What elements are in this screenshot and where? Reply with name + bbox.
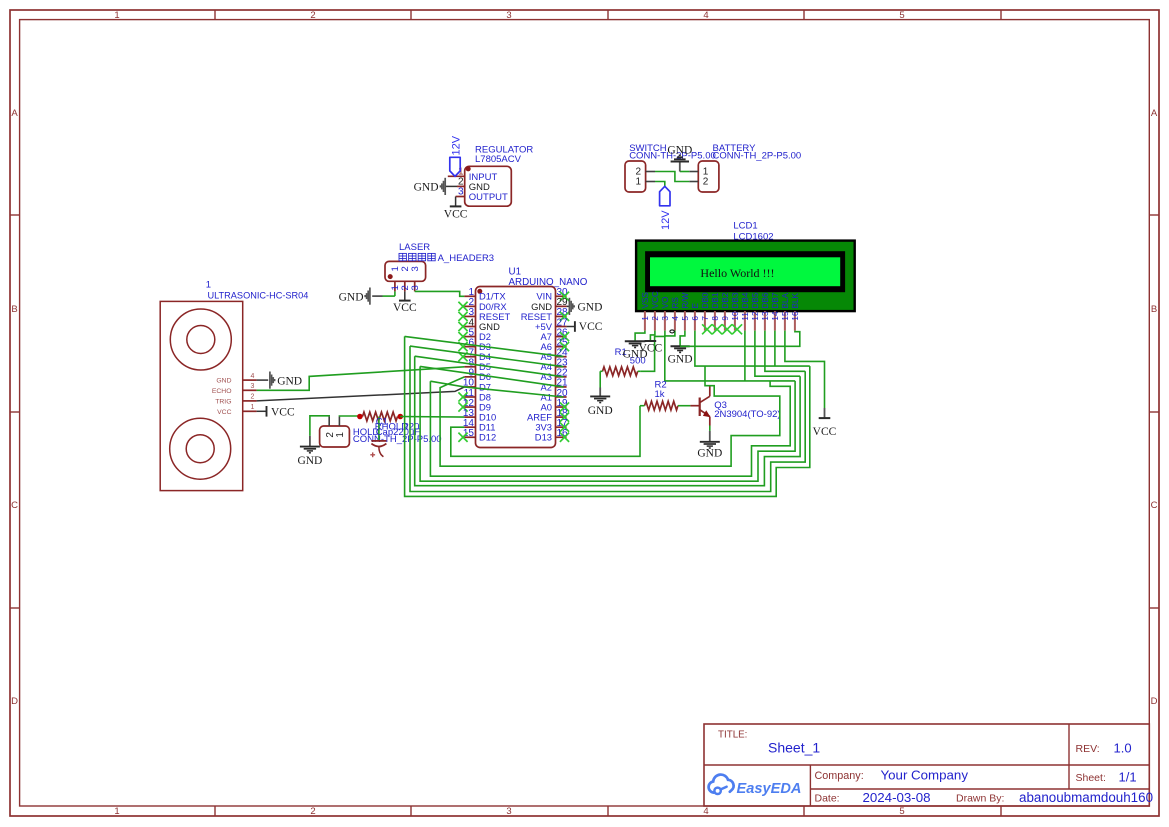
svg-text:Drawn By:: Drawn By:	[956, 793, 1004, 805]
U1 pin 16 D13	[535, 428, 568, 443]
wire U1 D3 to A5 diagonal	[405, 336, 564, 356]
svg-text:E: E	[691, 303, 700, 309]
small ellipse mark near LCD pin4	[670, 330, 674, 333]
svg-text:VCC: VCC	[444, 209, 468, 221]
wire LCD pin15 BLA to VCC	[785, 331, 825, 408]
ultrasonic pin 3 ECHO	[212, 383, 257, 395]
no-connect X on U1 pin 11	[458, 392, 467, 401]
svg-text:1k: 1k	[655, 389, 665, 400]
battery pin 1 stub	[689, 171, 698, 173]
svg-text:REV:: REV:	[1076, 743, 1100, 755]
svg-text:2: 2	[251, 394, 255, 401]
wire U1 D11 to R2	[451, 406, 640, 457]
capacitor C1 Cap220uF polarized	[370, 416, 420, 457]
wire U1 D4 to A4 diagonal	[410, 346, 564, 367]
no-connect X on LCD pin 7	[702, 324, 712, 334]
svg-text:1: 1	[335, 432, 346, 438]
svg-text:12V: 12V	[660, 210, 672, 230]
svg-text:GND: GND	[414, 181, 439, 193]
wire R1 left to GND	[599, 371, 601, 387]
no-connect X on U1 pin 17	[560, 423, 569, 432]
wire LCD pin6 E descending	[695, 331, 810, 367]
part anchor dot laser	[388, 274, 393, 279]
U1 pin 26 A7	[541, 327, 569, 342]
svg-text:3: 3	[410, 266, 421, 271]
ground GND at laser pin1	[339, 288, 370, 305]
connector BATTERY CONN-TH_2P-P5.00	[698, 143, 801, 192]
U1 pin 2 D0/RX	[464, 297, 507, 312]
connector SWITCH CONN-TH-2P-P5.00	[625, 143, 716, 192]
LCD pin 7 DB0	[701, 292, 710, 330]
hold pin 1 stub	[338, 416, 340, 426]
svg-text:5: 5	[899, 10, 904, 21]
LCD pin 8 DB1	[711, 292, 720, 330]
U1 pin 22 A3	[541, 368, 569, 383]
hold pin 2 stub	[328, 416, 330, 426]
wire LCD pin2 VCC to VCC flag	[650, 331, 655, 341]
U1 pin 14 D11	[463, 418, 496, 433]
wire LCD pin14 DB7 to E net	[774, 331, 776, 367]
svg-text:GND: GND	[297, 455, 322, 467]
ground GND at Q3 emitter	[697, 431, 722, 460]
svg-text:Your Company: Your Company	[881, 767, 969, 782]
LCD pin 13 DB6	[761, 292, 770, 330]
svg-text:ULTRASONIC-HC-SR04: ULTRASONIC-HC-SR04	[208, 290, 309, 300]
EasyEDA logo	[709, 775, 802, 798]
svg-text:3: 3	[506, 10, 511, 21]
U1 pin 21 A2	[541, 378, 569, 393]
svg-text:B: B	[1151, 304, 1157, 315]
svg-text:ECHO: ECHO	[212, 388, 232, 395]
svg-text:GND: GND	[697, 448, 722, 460]
wire switch pin1 to 12V flag	[655, 182, 665, 187]
svg-text:3: 3	[506, 806, 511, 817]
svg-text:A: A	[11, 108, 18, 119]
svg-text:16: 16	[557, 428, 569, 439]
svg-text:16: 16	[791, 311, 800, 321]
svg-text:DB7: DB7	[771, 292, 780, 308]
svg-text:LCD1602: LCD1602	[733, 231, 773, 242]
svg-text:D12: D12	[479, 432, 496, 443]
svg-text:4: 4	[671, 316, 680, 321]
no-connect X on U1 pin 7	[458, 352, 467, 361]
connector HOLD CONN-TH_2P-P5.00	[320, 426, 442, 447]
no-connect X on U1 pin 6	[458, 342, 467, 351]
svg-text:D: D	[1151, 696, 1158, 707]
LCD pin 16 BLK	[791, 292, 800, 330]
svg-text:3: 3	[458, 187, 464, 198]
wire switch pin2 to battery pin2	[655, 172, 689, 182]
wire LCD pin5 R/W to GND	[680, 331, 685, 347]
svg-text:ARDUINO_NANO: ARDUINO_NANO	[509, 277, 588, 288]
U1 pin 29 GND	[531, 297, 568, 312]
ultrasonic pin 1 VCC	[217, 404, 256, 416]
regulator pin 1	[448, 166, 465, 177]
wire GND to battery pin1	[680, 171, 690, 173]
svg-text:VCC: VCC	[813, 426, 837, 438]
svg-text:2024-03-08: 2024-03-08	[863, 790, 931, 805]
wire LCD pin11 DB4 to RS net	[744, 331, 746, 381]
no-connect X on U1 pin 25	[560, 342, 569, 351]
svg-text:2: 2	[703, 177, 709, 188]
svg-text:DB0: DB0	[701, 292, 710, 308]
svg-text:GND: GND	[216, 378, 231, 385]
U1 pin 23 A4	[541, 358, 569, 373]
svg-text:CONN-TH_2P-P5.00: CONN-TH_2P-P5.00	[713, 150, 802, 161]
wire U1 D5 to A3 diagonal	[415, 356, 564, 377]
ground GND at U1 pin29	[567, 305, 570, 307]
svg-text:2: 2	[651, 316, 660, 321]
svg-text:3: 3	[661, 316, 670, 321]
U1 pin 4 GND	[464, 317, 500, 332]
svg-text:7: 7	[701, 316, 710, 321]
svg-text:GND: GND	[277, 375, 302, 387]
no-connect X on U1 pin 12	[458, 402, 467, 411]
U1 pin 6 D3	[464, 337, 491, 352]
power VCC at LCD pin2	[639, 341, 663, 354]
power flag 12V below switch	[660, 186, 670, 206]
svg-text:OUTPUT: OUTPUT	[469, 192, 508, 203]
regulator pin 3	[456, 187, 465, 198]
U1 pin 30 VIN	[536, 287, 568, 302]
U1 pin 10 D7	[463, 378, 491, 393]
svg-text:D: D	[11, 696, 18, 707]
ground GND below R1	[588, 388, 613, 418]
connector LASER A_HEADER3	[385, 242, 430, 281]
svg-text:Company:: Company:	[815, 770, 864, 782]
no-connect X on U1 pin 15	[458, 433, 467, 442]
wire U1 D6pin to A2 diagonal	[420, 366, 563, 387]
wire hold pin2 to GND	[310, 416, 329, 436]
U1 pin 9 D6	[464, 368, 491, 383]
svg-text:DB3: DB3	[731, 292, 740, 308]
no-connect X on LCD pin 10	[732, 324, 742, 334]
svg-text:3: 3	[410, 285, 421, 290]
svg-text:VCC: VCC	[651, 291, 660, 308]
module ULTRASONIC-HC-SR04	[160, 280, 308, 491]
svg-text:13: 13	[761, 311, 770, 321]
no-connect X on U1 pin 2	[458, 302, 467, 311]
svg-text:C: C	[11, 500, 18, 511]
wire RHOLD to U1 pin13 D10	[400, 416, 464, 419]
U1 pin 28 RESET	[521, 307, 568, 322]
svg-text:Cap220uF: Cap220uF	[376, 427, 421, 438]
svg-text:LCD1: LCD1	[733, 220, 757, 231]
ultrasonic pin 4 GND	[216, 373, 256, 385]
wire ultrasonic VCC pin to VCC flag	[257, 410, 267, 412]
svg-text:VCC: VCC	[217, 409, 231, 416]
svg-text:VCC: VCC	[579, 321, 603, 333]
svg-text:DB4: DB4	[741, 292, 750, 308]
svg-text:abanoubmamdouh160: abanoubmamdouh160	[1019, 790, 1153, 805]
junction dot at RHOLD right	[398, 414, 404, 420]
svg-text:1: 1	[206, 280, 211, 291]
svg-text:1: 1	[251, 404, 255, 411]
transistor Q3 2N3904(TO-92)	[690, 386, 780, 426]
wire LCD pin16 BLK to GND	[680, 331, 800, 347]
svg-text:12V: 12V	[451, 135, 463, 155]
U1 pin 20 A1	[541, 388, 569, 403]
no-connect X on U1 pin 19	[560, 402, 569, 411]
svg-text:C: C	[1151, 500, 1158, 511]
svg-text:VCC: VCC	[639, 342, 663, 354]
U1 pin 3 RESET	[464, 307, 510, 322]
wire A2 loop to LCD RS net	[420, 366, 795, 481]
svg-text:DB6: DB6	[761, 292, 770, 308]
resistor R2 1k	[640, 380, 690, 411]
switch pin 2 stub	[646, 171, 655, 173]
power VCC at LCD backlight	[813, 408, 837, 438]
wire ECHO to U1 pin8 D5	[257, 367, 465, 391]
svg-text:GND: GND	[339, 291, 364, 303]
ground GND at LCD VSS	[623, 341, 648, 360]
svg-text:2: 2	[310, 806, 315, 817]
svg-text:8: 8	[711, 316, 720, 321]
LCD pin 15 BLA	[781, 292, 790, 330]
part anchor dot U1	[477, 289, 482, 294]
wire ultrasonic GND pin to GND flag	[257, 379, 269, 381]
U1 pin 19 A0	[541, 398, 569, 413]
svg-text:15: 15	[781, 311, 790, 321]
svg-text:DB5: DB5	[751, 292, 760, 308]
U1 pin 12 D9	[463, 398, 491, 413]
U1 pin 7 D4	[464, 348, 491, 363]
wire LCD pin13 DB6	[765, 331, 805, 372]
LCD pin 9 DB2	[721, 292, 730, 330]
svg-text:1: 1	[114, 806, 119, 817]
U1 pin 15 D12	[463, 428, 496, 443]
wire LCD pin1 VSS to GND	[635, 331, 645, 342]
power VCC at ultrasonic pin1	[267, 406, 295, 418]
resistor RHOLD 220	[360, 412, 419, 432]
svg-text:Sheet_1: Sheet_1	[768, 740, 820, 756]
part value CJK yellow header A_HEADER3	[399, 253, 494, 264]
svg-text:GND: GND	[668, 353, 693, 365]
svg-text:RS: RS	[671, 297, 680, 309]
battery pin 2 stub	[689, 181, 698, 183]
svg-text:VCC: VCC	[271, 406, 295, 418]
svg-text:1.0: 1.0	[1114, 741, 1132, 756]
switch pin 1 stub	[646, 181, 655, 183]
svg-text:10: 10	[731, 311, 740, 321]
svg-text:VCC: VCC	[393, 302, 417, 314]
svg-text:Hello World !!!: Hello World !!!	[700, 266, 774, 280]
svg-text:DB1: DB1	[711, 292, 720, 308]
svg-text:GND: GND	[667, 145, 692, 157]
ground GND below hold connector	[297, 436, 322, 467]
svg-text:3: 3	[251, 383, 255, 390]
svg-text:4: 4	[703, 806, 708, 817]
LCD pin 4 RS	[671, 297, 680, 331]
U1 pin 18 AREF	[527, 408, 568, 423]
wire Q3 emitter to GND	[709, 426, 711, 431]
resistor R1 500	[600, 347, 645, 376]
power VCC at U1 pin27	[567, 326, 575, 328]
power flag 12V at regulator input	[450, 157, 460, 176]
svg-text:A: A	[1151, 108, 1158, 119]
svg-text:VO: VO	[661, 297, 670, 309]
wire laser pin1 to GND	[372, 291, 395, 296]
no-connect X on U1 pin 18	[560, 413, 569, 422]
wire R1 right to LCD pin3 VO	[640, 331, 665, 372]
svg-text:VSS: VSS	[641, 292, 650, 309]
LCD pin 10 DB3	[731, 292, 740, 330]
svg-text:C1: C1	[376, 416, 388, 427]
U1 pin 8 D5	[464, 358, 491, 373]
svg-text:11: 11	[741, 312, 750, 321]
LCD pin 12 DB5	[751, 292, 760, 330]
svg-text:5: 5	[899, 806, 904, 817]
U1 pin 11 D8	[464, 388, 491, 403]
power VCC at laser pin2	[393, 301, 417, 314]
svg-text:A_HEADER3: A_HEADER3	[438, 253, 495, 264]
svg-text:L7805ACV: L7805ACV	[475, 154, 522, 165]
U1 pin 17 3V3	[535, 418, 568, 433]
LCD pin 2 VCC	[651, 291, 660, 330]
LCD pin 3 VO	[661, 297, 670, 331]
svg-text:D13: D13	[535, 432, 552, 443]
wire A3 loop to LCD DB5	[415, 356, 800, 486]
svg-text:1: 1	[114, 10, 119, 21]
U1 pin 5 D2	[464, 327, 491, 342]
svg-text:15: 15	[463, 428, 475, 439]
wire laser pin3 to U1 pin1 D1/TX	[415, 291, 465, 296]
LCD pin 14 DB7	[771, 292, 780, 330]
wire U1 D6 loop to LCD E net and Q3 collector	[440, 366, 780, 466]
part anchor dot	[466, 166, 471, 171]
U1 pin 27 +5V	[535, 317, 568, 332]
svg-text:GND: GND	[578, 301, 603, 313]
svg-text:GND: GND	[588, 405, 613, 417]
no-connect X on U1 pin 3	[458, 312, 467, 321]
no-connect X on U1 pin 5	[458, 332, 467, 341]
wire LCD pin4 RS net	[665, 331, 795, 381]
no-connect X on U1 pin 16	[560, 433, 569, 442]
ground GND at regulator pin 2	[446, 185, 457, 187]
ground GND at LCD R/W	[668, 346, 693, 365]
no-connect X on U1 pin 30	[560, 292, 569, 301]
svg-text:1/1: 1/1	[1119, 769, 1137, 784]
svg-text:12: 12	[751, 311, 760, 321]
svg-text:Sheet:: Sheet:	[1076, 772, 1106, 784]
wire A4 loop to LCD DB6	[410, 346, 805, 491]
junction dot at RHOLD left	[357, 414, 363, 420]
svg-text:DB2: DB2	[721, 292, 730, 308]
svg-text:4: 4	[251, 373, 255, 380]
no-connect X on U1 pin 28	[560, 312, 569, 321]
svg-text:TITLE:: TITLE:	[718, 730, 747, 741]
svg-text:2: 2	[310, 10, 315, 21]
svg-text:1: 1	[641, 316, 650, 321]
U1 pin 1 D1/TX	[464, 287, 506, 302]
svg-text:6: 6	[691, 316, 700, 321]
svg-text:R/W: R/W	[681, 292, 690, 308]
no-connect X on LCD pin 9	[722, 324, 732, 334]
U1 pin 13 D10	[463, 408, 496, 423]
wire U1 D7 riser to A1 diagonal and loop	[430, 381, 790, 476]
IC U1 ARDUINO_NANO body	[476, 266, 588, 447]
LCD pin 1 VSS	[641, 292, 650, 331]
title block	[704, 724, 1153, 806]
regulator pin 2	[457, 176, 465, 187]
ground GND above battery	[667, 145, 692, 172]
wire A5 loop to LCD E net	[405, 336, 810, 496]
ground GND at ultrasonic pin4	[270, 372, 302, 389]
svg-text:B: B	[11, 304, 17, 315]
svg-text:1: 1	[636, 177, 642, 188]
svg-text:LASER: LASER	[399, 242, 430, 253]
U1 pin 25 A6	[541, 337, 569, 352]
svg-text:EasyEDA: EasyEDA	[737, 781, 802, 797]
wire LCD pin12 DB5	[755, 331, 800, 377]
LCD pin 5 R/W	[681, 292, 690, 330]
LCD U2 LCD1602 display	[636, 241, 855, 312]
svg-text:2N3904(TO-92): 2N3904(TO-92)	[714, 409, 780, 420]
svg-text:BLA: BLA	[781, 292, 790, 308]
laser pins 1 2 3	[390, 266, 421, 291]
wire laser pin2 to VCC	[404, 291, 406, 300]
ultrasonic pin 2 TRIG	[215, 394, 256, 406]
LCD pin 6 E	[691, 303, 700, 331]
no-connect X on LCD pin 8	[712, 324, 722, 334]
wire TRIG to U1 pin10 D7	[257, 387, 465, 401]
svg-text:TRIG: TRIG	[215, 399, 231, 406]
svg-text:4: 4	[703, 10, 708, 21]
svg-text:14: 14	[771, 311, 780, 321]
regulator U1 L7805ACV	[465, 145, 534, 207]
svg-text:Date:: Date:	[815, 793, 840, 805]
LCD pin 11 DB4	[741, 292, 750, 330]
svg-text:5: 5	[681, 316, 690, 321]
U1 pin 24 A5	[541, 348, 569, 363]
power VCC at regulator output	[455, 197, 457, 207]
svg-text:BLK: BLK	[791, 292, 800, 308]
svg-text:9: 9	[721, 316, 730, 321]
no-connect X on U1 pin 4	[458, 322, 467, 331]
wire hold pin1 to resistor RHOLD	[339, 415, 360, 418]
no-connect X on U1 pin 26	[560, 332, 569, 341]
svg-text:U1: U1	[509, 266, 522, 277]
